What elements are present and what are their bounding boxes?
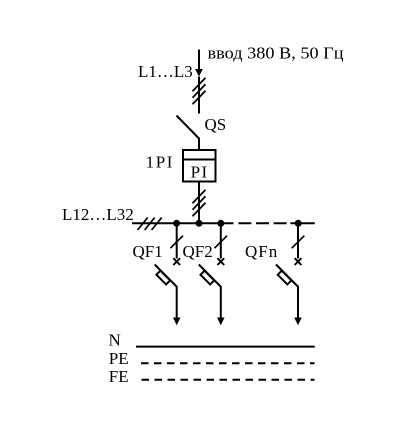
svg-text:PI: PI [191, 163, 209, 182]
svg-text:N: N [109, 331, 121, 350]
svg-text:1PI: 1PI [146, 152, 174, 171]
svg-text:QFn: QFn [245, 242, 278, 261]
svg-text:QF1: QF1 [133, 242, 163, 261]
svg-text:QF2: QF2 [183, 242, 213, 261]
svg-text:FE: FE [109, 367, 129, 386]
svg-text:L1…L3: L1…L3 [138, 62, 193, 81]
svg-text:L12…L32: L12…L32 [62, 205, 134, 224]
svg-text:QS: QS [205, 115, 227, 134]
svg-text:PE: PE [109, 349, 129, 368]
svg-text:ввод 380 В, 50 Гц: ввод 380 В, 50 Гц [208, 43, 344, 62]
